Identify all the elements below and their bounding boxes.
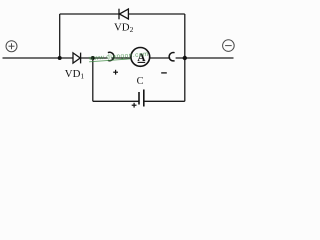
terminal plus (+) left (6, 41, 17, 52)
wire right connector to minus terminal (176, 57, 234, 59)
label - (ammeter polarity) (161, 72, 167, 74)
wire top right segment (128, 13, 184, 15)
wire top left segment (60, 13, 119, 15)
wire left connector to ammeter (112, 57, 131, 59)
connector socket right (169, 53, 174, 61)
wire bottom right segment (144, 100, 185, 102)
capacitor C plates (139, 90, 144, 107)
wire ammeter to right connector (150, 57, 170, 59)
wire right vertical (184, 14, 186, 101)
diode VD1 (73, 53, 81, 64)
label + (capacitor polarity) (132, 103, 137, 108)
svg-text:C: C (137, 76, 144, 87)
wire bottom left segment (93, 100, 139, 102)
diode VD2 (119, 9, 128, 20)
connector socket left (108, 52, 114, 60)
wire main left segment (3, 57, 74, 59)
terminal minus (-) right (223, 40, 235, 52)
node junction dot B (capacitor branch tap) (91, 56, 95, 60)
wire VD1 to left connector (81, 57, 108, 59)
ammeter A (131, 48, 150, 67)
node junction dot C (right) (183, 56, 187, 60)
node junction dot A (top branch tap) (58, 56, 62, 60)
watermark www.diangon.com (88, 51, 149, 62)
label + (ammeter polarity) (113, 70, 118, 75)
wire top branch vertical left (59, 14, 61, 58)
wire bottom loop vertical left (92, 58, 94, 101)
